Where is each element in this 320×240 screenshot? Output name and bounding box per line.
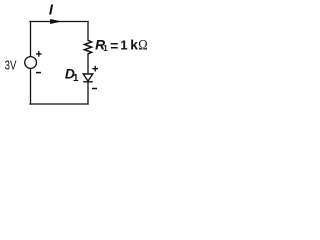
- minus sign of diode: [92, 88, 97, 90]
- wire bottom: [30, 103, 88, 105]
- svg-text:3V: 3V: [5, 59, 17, 73]
- label R1 = 1 kOhm: [95, 38, 147, 54]
- plus sign of source: [36, 51, 42, 57]
- wire right lower: [87, 82, 89, 104]
- wire right upper: [87, 22, 89, 41]
- plus sign of diode: [92, 66, 98, 72]
- current arrow: [50, 19, 62, 24]
- wire left upper: [30, 22, 32, 57]
- voltage source V1: [25, 57, 37, 69]
- resistor R1: [84, 40, 91, 54]
- wire right middle: [87, 54, 89, 74]
- svg-text:1: 1: [103, 44, 108, 53]
- svg-text:1: 1: [73, 73, 79, 84]
- svg-text:Ω: Ω: [138, 38, 147, 54]
- wire left lower: [30, 68, 32, 104]
- minus sign of source: [36, 72, 41, 74]
- svg-text:k: k: [130, 38, 138, 53]
- svg-text:1: 1: [120, 38, 127, 53]
- label D1: [65, 67, 79, 84]
- svg-text:=: =: [110, 39, 118, 54]
- wire top: [30, 21, 88, 23]
- diode D1: [83, 74, 93, 82]
